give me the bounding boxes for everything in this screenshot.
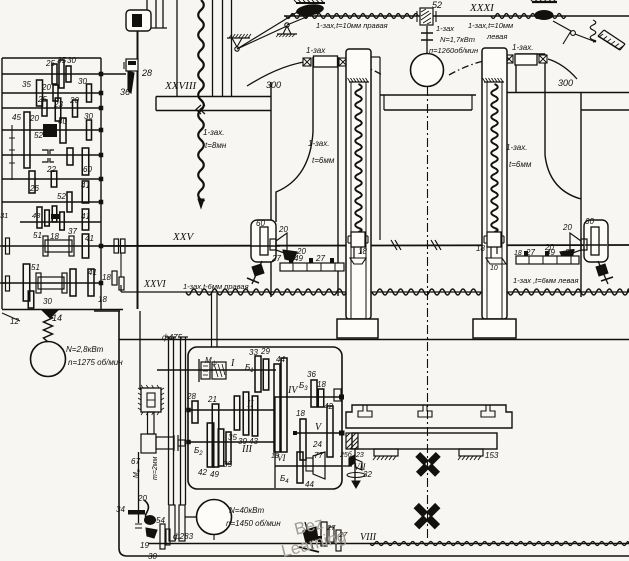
svg-text:1-зах.: 1-зах. — [308, 139, 329, 148]
svg-text:29: 29 — [260, 347, 270, 356]
shaft XXV full width — [101, 245, 629, 246]
feed screw XXVIII (wavy vertical) — [198, 0, 204, 201]
shaft VI — [275, 465, 342, 467]
tower pedestal right — [473, 319, 516, 338]
gearbox outline — [188, 347, 342, 489]
svg-text:44: 44 — [276, 355, 285, 364]
svg-text:1-зах,t=10мм: 1-зах,t=10мм — [468, 21, 513, 30]
svg-text:300: 300 — [558, 78, 573, 88]
shaft I — [157, 369, 276, 371]
svg-text:35: 35 — [228, 433, 237, 442]
svg-text:1-зах: 1-зах — [306, 46, 326, 55]
shafts from top edge — [146, 0, 148, 28]
svg-text:45: 45 — [12, 113, 21, 122]
svg-text:49: 49 — [546, 248, 555, 257]
pennant 36 — [128, 71, 134, 93]
lower table plate — [352, 433, 497, 449]
T-slots — [358, 405, 372, 417]
right tower bevel drive bracket — [584, 220, 608, 262]
svg-text:18: 18 — [98, 295, 107, 304]
svg-text:21: 21 — [207, 395, 217, 404]
clutch shifting block — [141, 434, 156, 453]
vertical frame lines to beam — [176, 0, 178, 97]
handwheel shaft XXV — [0, 245, 6, 247]
svg-text:1-зах.: 1-зах. — [506, 143, 527, 152]
svg-text:35: 35 — [57, 56, 66, 65]
shaft II — [188, 409, 274, 411]
svg-text:30: 30 — [78, 77, 87, 86]
spring to motor — [44, 315, 53, 342]
svg-text:30: 30 — [148, 552, 157, 561]
svg-text:Б3: Б3 — [299, 381, 308, 392]
motor shaft to pulley — [185, 516, 197, 518]
svg-text:30: 30 — [67, 56, 76, 65]
svg-text:t=6мм: t=6мм — [312, 156, 335, 165]
svg-text:18: 18 — [102, 273, 111, 282]
svg-text:II: II — [246, 399, 254, 410]
shaft III — [188, 441, 274, 443]
svg-text:t=6мм: t=6мм — [509, 160, 532, 169]
beam right segment — [507, 92, 629, 94]
svg-text:25б: 25б — [339, 451, 353, 459]
shaft XXV inside box — [2, 245, 101, 247]
break marks on XXV — [391, 240, 401, 250]
frame base line y339 — [119, 339, 629, 341]
svg-text:60: 60 — [83, 165, 92, 174]
svg-text:18: 18 — [476, 244, 485, 253]
bevel cup right tower — [570, 233, 581, 254]
svg-text:49: 49 — [210, 470, 219, 479]
shaft f — [2, 178, 101, 180]
svg-text:1-зах,t=10мм правая: 1-зах,t=10мм правая — [316, 21, 388, 30]
column cap hatch — [349, 81, 369, 83]
bevel gear cup — [276, 233, 287, 254]
tower pedestal left — [337, 319, 378, 338]
svg-text:52: 52 — [432, 0, 442, 10]
side piece right of column — [371, 56, 380, 58]
svg-text:42: 42 — [198, 468, 207, 477]
shaft g — [2, 201, 101, 203]
gear 41 on XXV — [82, 234, 89, 258]
svg-text:60: 60 — [256, 219, 265, 228]
svg-text:51: 51 — [31, 263, 40, 272]
svg-text:1-зах: 1-зах — [436, 24, 454, 33]
shaft b — [2, 92, 101, 94]
svg-text:t=8мн: t=8мн — [205, 141, 227, 150]
svg-text:300: 300 — [266, 80, 281, 90]
bottom-right small gear cluster — [303, 527, 318, 543]
svg-text:18: 18 — [271, 453, 279, 460]
bevel pair 19 — [146, 528, 157, 538]
svg-text:20: 20 — [29, 114, 39, 123]
svg-text:40: 40 — [58, 117, 67, 126]
right cam dark blob — [535, 10, 554, 20]
svg-text:1-зах,t-6мм правая: 1-зах,t-6мм правая — [183, 282, 249, 291]
cam mechanism top-center : hatched block — [296, 2, 325, 4]
shaft XXVI — [121, 291, 629, 293]
right tower body outline — [515, 54, 517, 92]
svg-text:XXV: XXV — [172, 231, 194, 243]
lead screw in right column — [491, 84, 497, 232]
svg-text:44: 44 — [305, 480, 314, 489]
svg-text:18: 18 — [358, 247, 367, 256]
svg-text:33: 33 — [249, 348, 258, 357]
x-square left — [303, 58, 311, 66]
svg-text:ф283: ф283 — [173, 532, 194, 541]
svg-text:60: 60 — [585, 217, 594, 226]
clamp 28 — [126, 59, 138, 71]
solenoid hatched box — [141, 388, 161, 412]
shaft a — [2, 73, 101, 75]
coupling on XXV — [114, 239, 119, 253]
svg-text:19: 19 — [140, 541, 149, 550]
beam lower left segment — [156, 110, 271, 112]
cluster gears small — [37, 207, 42, 228]
rotation arc left — [247, 61, 311, 86]
svg-text:153: 153 — [485, 451, 499, 460]
svg-text:27: 27 — [315, 254, 325, 263]
rocker pivot B — [283, 26, 291, 34]
double chevron marks — [196, 105, 201, 114]
svg-text:Б1: Б1 — [245, 363, 254, 374]
handwheel shaft j — [0, 282, 6, 284]
gears shaft f — [29, 171, 35, 193]
svg-text:N=1,7кВт: N=1,7кВт — [440, 35, 475, 44]
svg-text:35: 35 — [223, 460, 232, 469]
shaft c — [2, 107, 101, 109]
svg-text:23: 23 — [355, 452, 364, 459]
svg-text:1-зах ,t=6мм левая: 1-зах ,t=6мм левая — [513, 276, 579, 285]
shaft e — [2, 154, 101, 156]
bevel gear 20 lower right — [560, 250, 574, 261]
right column — [482, 48, 507, 319]
svg-text:Б2: Б2 — [194, 446, 203, 457]
junction squares right edge — [99, 72, 104, 77]
svg-text:23: 23 — [53, 100, 63, 109]
svg-text:30: 30 — [84, 112, 93, 121]
svg-text:34: 34 — [116, 505, 125, 514]
svg-text:31: 31 — [0, 211, 8, 220]
shaft VIII — [148, 543, 629, 545]
junction on box edge — [340, 431, 345, 436]
svg-text:N=40кВт: N=40кВт — [229, 506, 264, 515]
cam (dark blob) — [295, 3, 324, 18]
svg-text:VIII: VIII — [360, 532, 377, 543]
gear 30 on VIII — [160, 524, 165, 549]
left tower body outline — [270, 82, 272, 297]
rotation arc right — [449, 58, 506, 75]
coupling above motor — [426, 26, 428, 53]
gears shaft j — [23, 264, 30, 301]
follower lever + roller — [553, 21, 571, 31]
left tower body curve — [276, 132, 313, 222]
svg-text:32: 32 — [363, 470, 372, 479]
gears shaft d — [24, 112, 30, 168]
wide gear 44 — [274, 364, 280, 452]
shaft XXXI — [284, 15, 629, 17]
lead screw XXVI waves — [186, 289, 346, 295]
svg-text:10: 10 — [490, 265, 498, 272]
slider block left tower — [314, 56, 338, 67]
svg-text:26: 26 — [29, 184, 39, 193]
svg-text:36: 36 — [120, 87, 130, 97]
svg-text:52: 52 — [57, 192, 66, 201]
lead screw in left column — [355, 84, 361, 232]
lead screw thread XXXI right portion — [286, 14, 418, 19]
svg-text:1-зах.: 1-зах. — [512, 43, 533, 52]
svg-text:XXVIII: XXVIII — [164, 80, 197, 92]
shaft V — [295, 432, 342, 434]
svg-text:41: 41 — [85, 234, 94, 243]
motor top (1.7 kW) — [411, 54, 444, 87]
gears shaft b — [37, 80, 43, 106]
svg-text:1-зах.: 1-зах. — [203, 128, 224, 137]
svg-text:36: 36 — [307, 370, 316, 379]
frame left edge — [119, 311, 629, 556]
gear bump right edge — [334, 389, 341, 401]
pulley ф283 — [169, 505, 175, 541]
shaft VII group — [343, 465, 352, 467]
table platform — [346, 405, 512, 428]
svg-text:20: 20 — [69, 96, 79, 105]
shaft h — [20, 221, 101, 223]
motor M1 (2.8 kW) — [31, 342, 66, 377]
svg-text:37: 37 — [68, 227, 77, 236]
left tower bevel drive bracket — [251, 220, 276, 262]
vertical shaft (long) — [137, 31, 139, 309]
svg-text:41: 41 — [81, 181, 90, 190]
svg-text:41: 41 — [81, 212, 90, 221]
bevel pair to XXVI — [120, 253, 122, 277]
links to cam — [237, 11, 299, 49]
beam between towers — [380, 94, 476, 96]
inner partition — [274, 397, 276, 488]
svg-text:27: 27 — [564, 248, 574, 257]
svg-text:25: 25 — [37, 95, 47, 104]
svg-text:п=1260об/мин: п=1260об/мин — [429, 46, 478, 55]
svg-text:48: 48 — [32, 211, 41, 220]
index worm cross lower — [414, 503, 441, 530]
svg-text:т=2мм: т=2мм — [152, 456, 159, 480]
left gear box outline — [2, 57, 101, 59]
gears shaft g — [67, 192, 72, 212]
bearing bracket top-left — [126, 10, 151, 31]
right column cap hatch — [484, 81, 504, 83]
svg-text:XXVI: XXVI — [143, 279, 166, 290]
shaft IV — [274, 396, 342, 398]
lever lower-right of bracket — [598, 261, 608, 284]
svg-text:25: 25 — [45, 59, 55, 68]
motor M3 (4.0 kW) — [197, 500, 232, 535]
svg-text:35: 35 — [22, 80, 31, 89]
svg-text:n=1275 об/мин: n=1275 об/мин — [68, 358, 123, 367]
rack bar left tower — [280, 263, 344, 271]
svg-text:V: V — [315, 422, 323, 433]
stub to clamp — [101, 73, 126, 75]
svg-text:III: III — [241, 444, 253, 455]
ground cone 14 — [42, 310, 58, 318]
beam upper left segment — [156, 96, 271, 98]
left tower body top block — [312, 57, 314, 132]
vertical link rod — [139, 311, 141, 390]
gears shaft I — [255, 356, 261, 392]
rack bar right tower — [516, 256, 579, 264]
table feet — [374, 449, 398, 456]
x-square right — [339, 58, 347, 66]
svg-text:20: 20 — [562, 223, 572, 232]
svg-text:14: 14 — [52, 313, 62, 323]
nut on left screw — [351, 232, 365, 247]
svg-text:18: 18 — [317, 380, 326, 389]
bevel cup on VI — [313, 452, 325, 479]
nut 52 on screw XXXI — [420, 8, 433, 25]
svg-text:30: 30 — [43, 297, 52, 306]
svg-text:n=1450 об/мин: n=1450 об/мин — [226, 519, 281, 528]
frame line y311 — [94, 310, 120, 312]
svg-text:27: 27 — [525, 248, 535, 257]
svg-text:XXXI: XXXI — [469, 2, 495, 14]
svg-text:Мп: Мп — [133, 469, 142, 478]
shaft d — [2, 129, 101, 131]
twin verticals XXVI to gearbox — [211, 293, 213, 347]
svg-text:42: 42 — [324, 402, 333, 411]
svg-text:левая: левая — [486, 32, 507, 41]
svg-text:28: 28 — [141, 68, 152, 78]
hatched clamp block — [346, 433, 358, 449]
cam mechanism top-right : hatched block — [532, 1, 557, 3]
svg-text:Б4: Б4 — [280, 474, 289, 485]
plunger — [148, 412, 155, 434]
lever lower-left of bracket — [252, 261, 262, 284]
center axis dash-dot — [427, 87, 429, 540]
svg-text:20: 20 — [41, 83, 51, 92]
svg-text:IV: IV — [287, 385, 299, 396]
svg-text:51: 51 — [33, 231, 42, 240]
nut on right screw — [487, 232, 501, 247]
left column — [346, 49, 371, 319]
svg-text:49: 49 — [294, 254, 303, 263]
svg-text:18: 18 — [296, 409, 305, 418]
svg-text:28: 28 — [186, 392, 196, 401]
svg-text:20: 20 — [278, 225, 288, 234]
slider block right tower — [515, 54, 537, 65]
sliding block on XXV — [45, 240, 72, 252]
svg-text:52: 52 — [34, 131, 43, 140]
index worm cross upper — [415, 452, 440, 477]
shaft j — [2, 282, 101, 284]
rocker pivot A — [227, 37, 250, 39]
svg-text:41: 41 — [88, 268, 97, 277]
hatched wall top-right — [598, 36, 620, 50]
gears shaft a — [52, 64, 57, 84]
aux vertical small shaft — [11, 125, 13, 180]
svg-text:24: 24 — [312, 440, 322, 449]
svg-text:27: 27 — [271, 254, 281, 263]
follower spring — [590, 20, 596, 42]
bevel gear 20 lower — [283, 250, 297, 261]
svg-text:I: I — [230, 358, 235, 369]
x-squares right tower — [505, 55, 513, 63]
gears shaft c — [42, 100, 47, 116]
svg-text:N=2,8кВт: N=2,8кВт — [66, 345, 104, 354]
gears shaft e — [42, 150, 48, 162]
svg-text:18: 18 — [514, 250, 522, 257]
